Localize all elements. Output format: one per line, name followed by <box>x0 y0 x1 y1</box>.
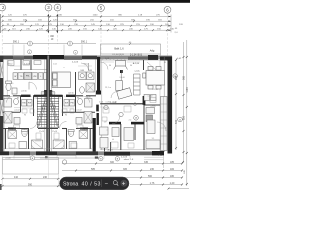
svg-text:UM: UM <box>81 70 84 72</box>
svg-text:560.2: 560.2 <box>8 64 13 66</box>
svg-text:182: 182 <box>170 168 175 171</box>
svg-text:90: 90 <box>24 115 26 117</box>
svg-text:560.2: 560.2 <box>84 64 89 66</box>
svg-text:565: 565 <box>183 75 186 80</box>
svg-text:O: O <box>29 42 31 45</box>
svg-text:1,04: 1,04 <box>99 102 103 104</box>
svg-text:14,2: 14,2 <box>42 93 46 95</box>
svg-text:1100: 1100 <box>186 87 189 93</box>
svg-text:k: k <box>65 96 66 98</box>
svg-text:2-1,04 (9) B: 2-1,04 (9) B <box>112 54 124 56</box>
svg-text:1,02: 1,02 <box>53 64 57 66</box>
svg-text:szafa: szafa <box>134 71 140 73</box>
svg-text:Strona: Strona <box>63 182 78 188</box>
svg-text:5,2: 5,2 <box>24 134 27 136</box>
svg-text:n.250: n.250 <box>148 96 153 98</box>
svg-text:x: x <box>107 130 108 132</box>
svg-text:2-1,03: 2-1,03 <box>72 62 79 64</box>
svg-text:KW: KW <box>65 102 68 104</box>
svg-text:UM: UM <box>89 70 92 72</box>
svg-text:ZM: ZM <box>33 76 36 78</box>
svg-text:1,20: 1,20 <box>170 182 175 185</box>
svg-text:O: O <box>69 42 71 45</box>
svg-text:2-1,02: 2-1,02 <box>76 110 81 112</box>
svg-text:W: W <box>14 76 16 78</box>
svg-text:590.1: 590.1 <box>81 41 88 44</box>
svg-text:345: 345 <box>144 161 149 164</box>
svg-text:1100: 1100 <box>93 15 98 17</box>
svg-text:2-1,04: 2-1,04 <box>110 102 117 104</box>
svg-text:300: 300 <box>110 161 115 164</box>
svg-text:180: 180 <box>170 175 175 178</box>
svg-text:x: x <box>64 67 65 69</box>
svg-text:45: 45 <box>164 62 166 64</box>
svg-text:+0,00: +0,00 <box>5 158 11 160</box>
svg-text:80: 80 <box>17 98 19 100</box>
svg-text:PW: PW <box>28 102 31 104</box>
svg-text:1,9: 1,9 <box>104 122 107 124</box>
svg-text:230: 230 <box>150 168 155 171</box>
svg-text:+: + <box>122 181 126 188</box>
svg-text:540: 540 <box>175 119 178 124</box>
svg-text:2-1,06: 2-1,06 <box>119 77 124 79</box>
svg-text:2-1,01: 2-1,01 <box>10 130 15 132</box>
svg-text:520: 520 <box>183 115 186 120</box>
svg-text:akust. 1:8: akust. 1:8 <box>124 158 134 161</box>
svg-text:2-1,02: 2-1,02 <box>14 110 19 112</box>
svg-text:3,1: 3,1 <box>152 138 155 140</box>
svg-text:k: k <box>31 96 32 98</box>
svg-text:590: 590 <box>28 183 33 186</box>
svg-text:2,4: 2,4 <box>129 120 132 122</box>
svg-text:585: 585 <box>91 168 96 171</box>
svg-text:4,3 m: 4,3 m <box>68 93 74 95</box>
svg-text:2-1,08: 2-1,08 <box>152 89 157 91</box>
svg-text:A-2,04: A-2,04 <box>133 62 140 65</box>
svg-text:17x18: 17x18 <box>52 131 57 133</box>
svg-text:17x18: 17x18 <box>39 131 44 133</box>
svg-text:90: 90 <box>65 115 67 117</box>
svg-text:80: 80 <box>77 98 79 100</box>
svg-text:305: 305 <box>123 168 128 171</box>
svg-text:Balk 1,6: Balk 1,6 <box>114 47 124 51</box>
svg-text:90: 90 <box>109 65 111 67</box>
svg-text:23,1 m: 23,1 m <box>105 87 111 89</box>
svg-text:90: 90 <box>130 65 132 67</box>
svg-text:345: 345 <box>175 75 178 80</box>
svg-text:−: − <box>105 181 109 187</box>
svg-text:KW: KW <box>22 102 25 104</box>
svg-text:185: 185 <box>170 161 175 164</box>
svg-text:590.1: 590.1 <box>13 41 20 44</box>
svg-text:A 2,0: A 2,0 <box>108 149 114 152</box>
svg-text:PW: PW <box>70 102 73 104</box>
svg-text:40 / 53: 40 / 53 <box>82 182 101 188</box>
svg-text:1,76: 1,76 <box>150 182 155 185</box>
svg-text:Asfg: Asfg <box>150 50 155 53</box>
svg-text:2-1,01: 2-1,01 <box>82 130 87 132</box>
svg-text:w.g.: w.g. <box>34 98 38 100</box>
svg-text:2,3 m: 2,3 m <box>21 91 27 93</box>
svg-text:410: 410 <box>14 176 19 179</box>
svg-text:240: 240 <box>43 176 48 179</box>
svg-text:1,9: 1,9 <box>11 83 14 85</box>
svg-text:n.120: n.120 <box>5 97 11 99</box>
svg-text:2-1,07: 2-1,07 <box>24 64 31 66</box>
svg-text:560: 560 <box>148 175 153 178</box>
svg-text:w.g.: w.g. <box>58 98 62 100</box>
svg-text:14,2: 14,2 <box>50 93 54 95</box>
svg-text:5,2: 5,2 <box>69 134 72 136</box>
svg-text:n.120: n.120 <box>151 106 156 108</box>
